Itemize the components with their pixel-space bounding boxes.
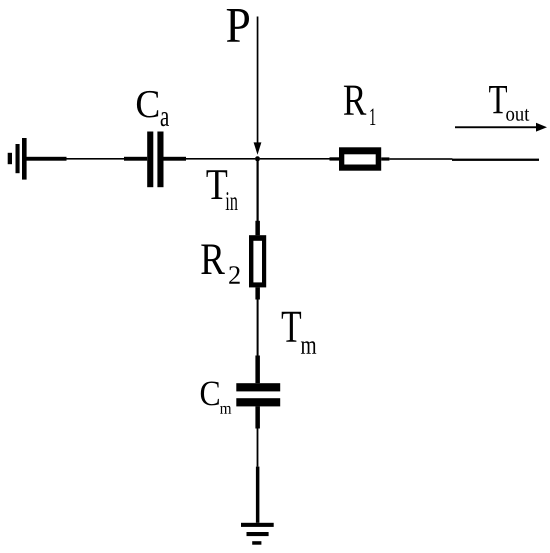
label Tm xyxy=(282,312,317,354)
wire: capacitor Ca to node Tin (thick then thin) xyxy=(164,157,256,161)
label P xyxy=(227,9,249,42)
ground GND1 (left) xyxy=(8,138,27,180)
capacitor Cm xyxy=(236,383,280,406)
node Tin (junction dot) xyxy=(255,156,260,161)
resistor R1 xyxy=(339,147,381,170)
label R2 xyxy=(201,245,239,284)
label Tout xyxy=(489,86,529,121)
label Tin xyxy=(207,170,238,210)
wire: Cm down to ground GND2 (thick stub, thin, thick) xyxy=(255,406,260,522)
wire: node Tin down to R2 (thin then thick stub) xyxy=(255,161,260,235)
ground GND2 (bottom) xyxy=(241,523,274,545)
wire: thick stub right of R1 xyxy=(381,157,389,160)
capacitor Ca xyxy=(147,132,163,188)
wire: thick stub left of R1 xyxy=(330,157,340,160)
wire: R2 down to capacitor Cm (thick stub, thin, thick stub) xyxy=(255,287,260,383)
wire: input P vertical line xyxy=(257,17,259,145)
arrow Tout (output arrow) xyxy=(455,123,547,132)
wire: left ground to capacitor Ca (thick-thin-thick) xyxy=(27,157,148,161)
arrow P (arrowhead pointing down to node) xyxy=(254,142,262,154)
label Ca xyxy=(137,91,169,126)
resistor R2 xyxy=(249,235,266,287)
label R1 xyxy=(344,86,376,125)
wire: node Tin to resistor R1 (thin) xyxy=(260,158,330,160)
label Cm xyxy=(201,382,232,414)
wire: R1 to output (thin then slightly thicker) xyxy=(389,158,539,161)
